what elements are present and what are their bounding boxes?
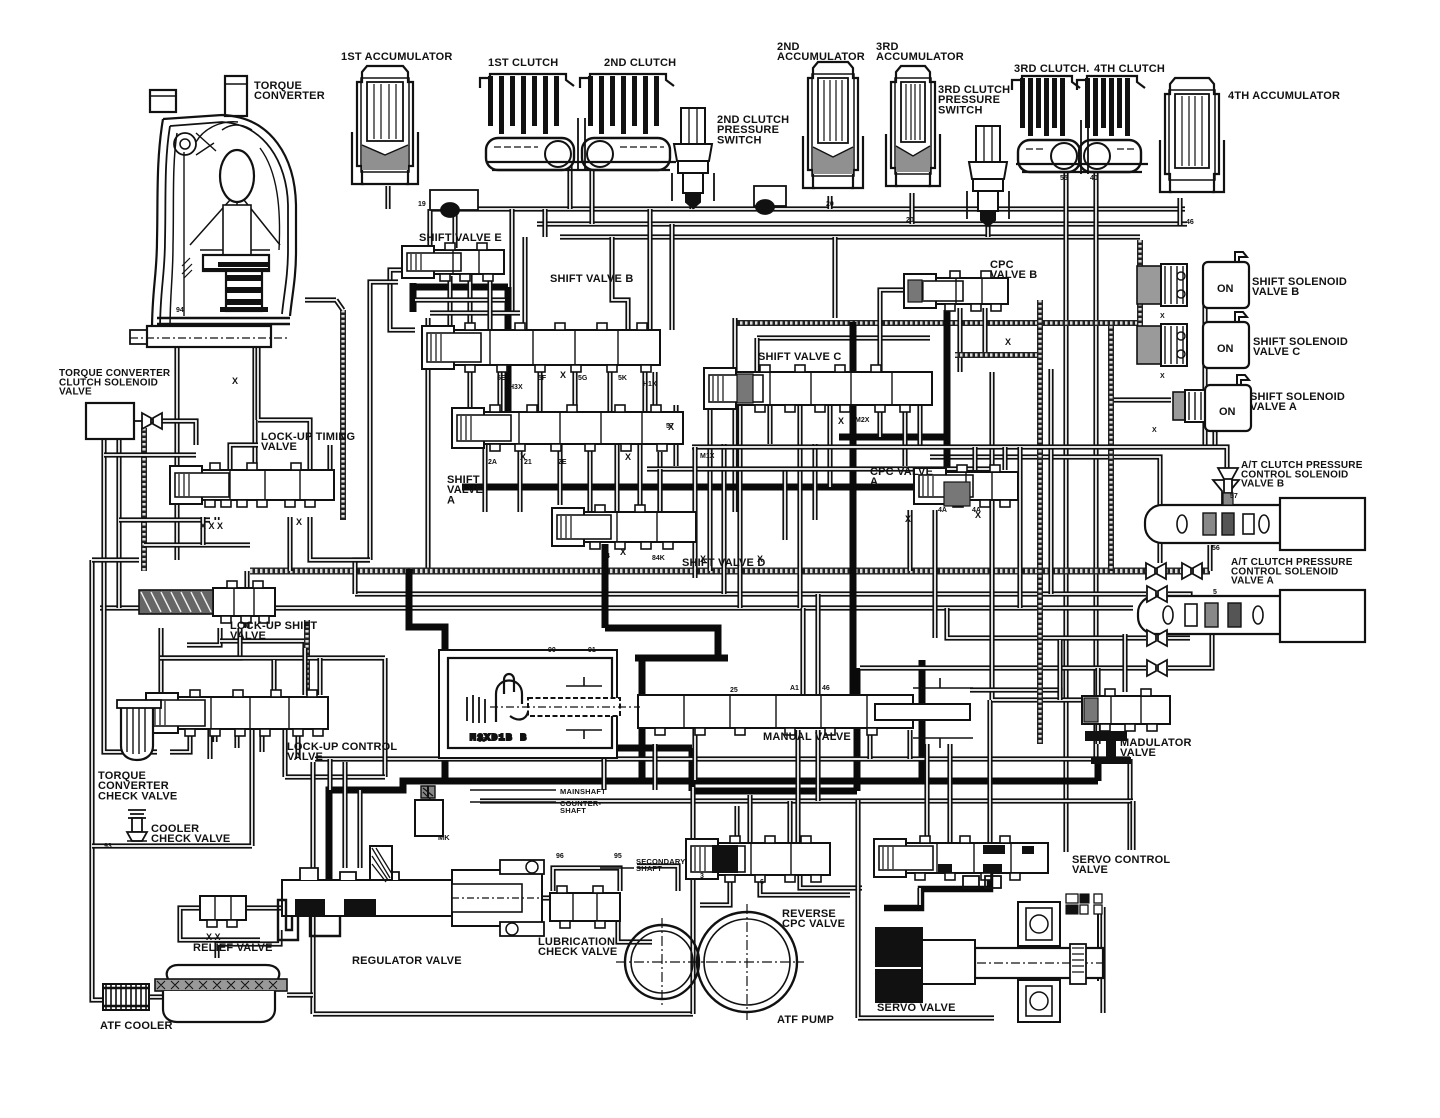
hatched TCC drop	[141, 428, 147, 571]
wire trunk y801	[480, 798, 1133, 803]
wire 3rd-clutch long line	[1063, 172, 1068, 852]
wire drop to servo control	[1127, 759, 1132, 850]
fitting funnel 3	[1147, 586, 1167, 602]
svg-text:MANUAL VALVE: MANUAL VALVE	[763, 731, 854, 743]
wire sc drop x950	[947, 744, 952, 843]
relief valve	[200, 896, 246, 927]
svg-text:96: 96	[556, 853, 564, 860]
wire 2nd-accumulator drop	[827, 196, 832, 209]
svg-text:X: X	[975, 510, 981, 520]
svg-text:X: X	[520, 452, 526, 462]
ATF cooler	[103, 984, 149, 1010]
wire B-A0	[467, 372, 472, 412]
svg-text:4: 4	[606, 553, 610, 560]
wire elbow to shift valve E	[427, 209, 432, 250]
hatched lus-luc link	[304, 620, 310, 695]
clutch 1/2 base plate	[486, 162, 676, 170]
torque converter	[130, 76, 296, 347]
wire big box right	[690, 787, 695, 1014]
hatched trunk y323	[735, 320, 1140, 326]
svg-text:X: X	[620, 547, 626, 557]
wire E left loop	[390, 270, 415, 330]
wire C dn3	[767, 405, 772, 444]
wire B-A3	[572, 365, 577, 412]
wire servo right v	[1100, 907, 1105, 1013]
clutch 2nd	[580, 74, 674, 170]
thick link under mainshaft	[605, 668, 857, 791]
wire rung1	[104, 452, 196, 457]
hatched long trunk y571	[250, 568, 1210, 575]
pressure switch 2nd clutch	[672, 108, 714, 208]
wire A-D3	[557, 444, 562, 505]
thick y628 right	[605, 628, 718, 658]
thick x605 low	[603, 658, 608, 748]
shift valve B	[422, 323, 660, 372]
svg-text:ON: ON	[1217, 343, 1234, 355]
svg-text:H1X: H1X	[643, 381, 657, 388]
wire trunk y469	[647, 466, 1000, 471]
wire B-A6	[652, 372, 657, 412]
wire drop x672	[669, 224, 674, 330]
svg-text:93: 93	[104, 843, 112, 850]
wire C dn5	[827, 405, 832, 487]
wire reg drop1	[357, 790, 362, 868]
wire clutch12 stem	[578, 118, 585, 170]
wire relief-reg	[246, 905, 282, 910]
wire mod top	[1057, 640, 1062, 700]
wire v x1051	[1048, 369, 1053, 594]
wire lus rung b	[160, 628, 240, 658]
wire drop x655	[652, 744, 657, 790]
wire rcpc up2	[747, 795, 752, 843]
svg-text:RELIEF VALVE: RELIEF VALVE	[193, 942, 276, 954]
wire inner drop	[754, 338, 759, 372]
wire A-D4b	[587, 444, 592, 512]
wire v x617	[614, 444, 619, 512]
svg-text:M1X: M1X	[700, 453, 715, 460]
cpc valve A hatched land	[944, 482, 970, 506]
wire 1st-accumulator drop	[385, 186, 390, 209]
mainshaft assembly box	[439, 650, 640, 758]
wire rcpc dn3	[700, 875, 730, 905]
svg-text:90: 90	[548, 647, 556, 654]
wire E-B2	[487, 276, 492, 330]
svg-text:4TH ACCUMULATOR: 4TH ACCUMULATOR	[1228, 90, 1343, 102]
wire port c	[287, 517, 292, 571]
wire cpcB down	[957, 308, 962, 372]
hatched v x1040	[1037, 300, 1043, 744]
manual valve	[638, 695, 913, 735]
wire TC drop right	[252, 347, 257, 470]
wire E-B1b	[447, 276, 452, 330]
wire cpcB to funnel column	[930, 457, 1160, 563]
shift valve C hatched land	[737, 374, 753, 403]
hatched y355	[955, 352, 1040, 358]
thick x642 down	[639, 658, 646, 781]
svg-text:5K: 5K	[618, 375, 627, 382]
wire trunk y759	[315, 756, 1130, 761]
hatched link x1140	[1137, 303, 1143, 351]
fitting funnel 2	[1182, 563, 1202, 579]
svg-text:84K: 84K	[652, 555, 665, 562]
wire v x935	[932, 510, 937, 638]
wire luc dn3	[295, 736, 300, 759]
hatched TC right drop	[340, 310, 346, 520]
wire reg drop3	[327, 759, 332, 790]
wire v x695	[692, 447, 697, 578]
wire clutch34 stem	[1081, 120, 1088, 174]
wire rcpc dn1	[760, 875, 850, 895]
wire C dn6	[877, 405, 882, 437]
wire luc top2	[302, 648, 307, 695]
svg-text:20: 20	[826, 201, 834, 208]
ATF pump	[616, 904, 804, 1020]
wire trunk y608 b	[1020, 605, 1133, 610]
wire 4th-accumulator drop	[1177, 198, 1182, 225]
wire mv drop3	[867, 730, 872, 759]
wire elbow x545	[542, 209, 547, 237]
wire C-cpcA1	[902, 405, 907, 466]
lubrication check valve	[550, 886, 620, 928]
wire funnel-unitA link	[1168, 594, 1190, 634]
svg-text:SHIFT VALVE C: SHIFT VALVE C	[758, 351, 845, 363]
wire C dn2	[737, 405, 742, 608]
wire rung3	[144, 542, 250, 547]
svg-text:LUBRICATION CHECK VALVE: LUBRICATION CHECK VALVE	[538, 936, 621, 958]
thick y658	[635, 655, 728, 662]
svg-text:X X: X X	[206, 932, 221, 942]
cpc valve A	[914, 465, 1018, 507]
svg-text:5: 5	[1213, 589, 1217, 596]
fitting funnel 4	[1147, 630, 1167, 646]
servo valve	[876, 894, 1108, 1022]
wire A-D5	[660, 452, 695, 520]
svg-text:X: X	[560, 370, 566, 380]
wire luc to trunk759	[207, 729, 212, 759]
svg-text:X: X	[700, 554, 706, 564]
wire B-A4	[607, 365, 612, 412]
wire into lockup shift	[92, 557, 139, 562]
svg-text:X: X	[1005, 337, 1011, 347]
wire drop x650	[647, 209, 652, 330]
wire timing top left	[230, 445, 258, 470]
wire lub top loop	[553, 868, 620, 891]
wire reg-lub link	[540, 895, 553, 900]
svg-text:4A: 4A	[938, 507, 947, 514]
wire y638 to funnel A	[947, 608, 1146, 638]
wire B-A2	[537, 365, 542, 412]
wire secondary leader	[600, 867, 634, 869]
wire drop x835	[832, 237, 837, 318]
pressure switch 3rd clutch	[967, 126, 1009, 226]
thick bottom trunk y781	[329, 762, 1098, 888]
wire 2nd-clutch drop	[589, 158, 594, 224]
svg-text:25: 25	[730, 687, 738, 694]
wire luc port2	[234, 729, 239, 748]
fitting funnel 5	[1147, 660, 1167, 676]
thick trunk y487	[462, 484, 947, 491]
wire 1st-clutch drop	[567, 158, 572, 209]
wire box1 right-bottom	[92, 727, 252, 846]
svg-text:40: 40	[1090, 175, 1098, 182]
wire left x104	[101, 420, 106, 680]
fitting check ball 1	[430, 190, 478, 217]
wire secondary link	[637, 866, 678, 891]
thick main low chain	[409, 569, 445, 781]
wire 4th-clutch long line	[1093, 172, 1098, 762]
thick riser x947	[944, 310, 951, 487]
A/T clutch pressure control solenoid valve B unit	[1145, 480, 1365, 550]
svg-text:X: X	[838, 416, 844, 426]
svg-text:1ST ACCUMULATOR: 1ST ACCUMULATOR	[341, 51, 456, 63]
wire solenoid A down	[1212, 431, 1217, 447]
wire servo border	[858, 800, 994, 1018]
svg-text:ATF PUMP: ATF PUMP	[777, 1014, 837, 1026]
wire TCC to timing	[150, 421, 196, 445]
wire trunk y447 to funnel B	[692, 447, 1227, 468]
svg-text:X: X	[1160, 313, 1165, 320]
wire C dn4	[797, 405, 802, 608]
wire v x975	[972, 447, 977, 470]
wire B-A1	[497, 365, 502, 412]
wire reservoir neck	[217, 930, 280, 958]
wire solenoid A feed	[1112, 397, 1171, 402]
wire v x910	[907, 510, 912, 571]
fitting TCC funnel	[142, 413, 162, 429]
reverse cpc valve	[686, 836, 830, 882]
svg-text:SHIFT VALVE B: SHIFT VALVE B	[550, 273, 637, 285]
accumulator 2nd	[803, 62, 863, 188]
fitting funnel above unit B	[1218, 468, 1238, 493]
svg-text:X: X	[1152, 427, 1157, 434]
svg-text:94: 94	[176, 307, 184, 314]
thick stub at E	[410, 283, 417, 312]
wire rcpc up3	[787, 801, 792, 843]
shift solenoid valve A	[1173, 375, 1251, 431]
wire reservoir right	[287, 992, 313, 997]
svg-text:55: 55	[478, 737, 486, 744]
wire modulator feed	[1095, 668, 1100, 744]
accumulator 1st	[352, 66, 418, 184]
regulator valve	[278, 846, 544, 940]
wire drop to servo control 2	[1130, 801, 1135, 850]
svg-text:X: X	[1160, 373, 1165, 380]
wire mainshaft leader	[470, 789, 556, 791]
svg-text:3: 3	[700, 873, 704, 880]
wire mv right link	[970, 690, 1060, 696]
servo control valve dark lands	[938, 845, 1034, 873]
svg-text:H3X: H3X	[509, 384, 523, 391]
servo control valve	[874, 836, 1048, 880]
wire v x428	[425, 318, 430, 569]
hatched x1140 upper	[1137, 240, 1143, 273]
wire drop x512	[509, 209, 514, 315]
svg-text:5F: 5F	[538, 375, 547, 382]
wire to shift valve E 2	[452, 209, 457, 248]
shift valve A	[452, 405, 683, 451]
svg-text:2A: 2A	[488, 459, 497, 466]
wire v x1020	[1017, 447, 1022, 608]
fitting check ball 2	[754, 186, 786, 214]
clutch 4th	[1077, 76, 1145, 172]
svg-text:95: 95	[614, 853, 622, 860]
svg-text:SERVO VALVE: SERVO VALVE	[877, 1002, 959, 1014]
wire drop x612	[612, 237, 628, 330]
shift valve C	[704, 365, 932, 412]
wire lus from trunk	[244, 571, 249, 628]
wire lus to luc	[220, 641, 305, 695]
svg-text:2ND CLUTCH: 2ND CLUTCH	[604, 57, 680, 69]
wire left x119	[116, 440, 121, 608]
reverse cpc dark end	[712, 845, 738, 873]
wire cooler-reservoir	[148, 994, 163, 999]
wire trunk y594	[355, 591, 1146, 596]
hatched v x1111	[1108, 326, 1114, 571]
wire C dn0	[673, 405, 678, 466]
wire E-B1	[467, 270, 472, 330]
wire y668 to unit A	[1168, 634, 1212, 668]
svg-text:X: X	[625, 452, 631, 462]
svg-text:X X X: X X X	[200, 521, 223, 531]
wire relief loop	[180, 908, 260, 940]
svg-text:A1: A1	[790, 685, 799, 692]
wire inner y338	[757, 335, 930, 340]
wire v x1005	[1002, 447, 1007, 470]
wire port b	[214, 517, 219, 520]
lock-up control valve	[146, 690, 328, 736]
svg-text:ON: ON	[1219, 406, 1236, 418]
wire left mid link	[355, 560, 370, 594]
svg-text:91: 91	[588, 647, 596, 654]
svg-text:4TH CLUTCH: 4TH CLUTCH	[1094, 63, 1168, 75]
wire drop x695	[692, 717, 697, 780]
fitting funnel 1	[1146, 563, 1166, 579]
wire servo right line	[1097, 912, 1099, 981]
clutch 3/4 base plate	[1016, 164, 1148, 172]
svg-text:SHIFT VALVE E: SHIFT VALVE E	[419, 232, 505, 244]
svg-text:19: 19	[418, 201, 426, 208]
wire y668	[860, 665, 1146, 670]
svg-text:3RD CLUTCH.: 3RD CLUTCH.	[1014, 63, 1093, 75]
thick into regulator	[300, 888, 329, 902]
MK pilot valve	[421, 786, 435, 798]
wire cpcB left	[880, 290, 905, 372]
svg-text:2E: 2E	[558, 459, 567, 466]
svg-text:57: 57	[1230, 493, 1238, 500]
svg-text:X: X	[668, 422, 674, 432]
wire unitB drop	[1207, 545, 1212, 571]
wire luc port3	[259, 729, 264, 752]
servo control port boxes	[963, 876, 1001, 888]
thick E to A	[413, 287, 508, 425]
lock-up timing valve	[170, 463, 334, 507]
wire big box left-bottom	[313, 762, 693, 1014]
wire right x1205	[1202, 280, 1207, 447]
clutch 3rd	[1012, 76, 1080, 172]
wire sc drop x927	[924, 744, 929, 843]
torque converter clutch solenoid valve	[86, 403, 144, 439]
modulator hatched end	[1084, 698, 1098, 722]
shift valve E	[402, 243, 504, 281]
wire 3rd-accumulator drop	[909, 193, 914, 224]
wire rung2	[119, 517, 210, 522]
wire into TC check valve	[104, 680, 157, 752]
wire mv-rcpc1	[795, 730, 800, 843]
svg-text:55: 55	[1060, 175, 1068, 182]
modulator valve dark base	[1085, 731, 1131, 764]
wire C-cpcA2	[917, 405, 922, 447]
wire v x660b	[657, 469, 662, 530]
svg-text:X: X	[757, 554, 763, 564]
wire box luc bottom	[285, 723, 385, 777]
svg-text:SHIFT VALVE D: SHIFT VALVE D	[682, 557, 769, 569]
wire E to left down	[370, 282, 398, 560]
wire cpcB down 2	[982, 308, 987, 355]
clutch 1st	[480, 74, 574, 170]
wire A-D2	[517, 444, 522, 512]
shift solenoid valve C	[1137, 312, 1249, 368]
svg-text:MK: MK	[438, 833, 450, 842]
wire mv drop4	[907, 730, 912, 759]
wire sc drop x990	[987, 700, 992, 843]
wire rung under E a	[415, 297, 505, 302]
wire timing top right	[327, 445, 332, 470]
thick riser x922	[919, 660, 926, 781]
wire left border	[92, 560, 103, 1000]
wire luc top3	[317, 658, 322, 695]
svg-text:1ST CLUTCH: 1ST CLUTCH	[488, 57, 562, 69]
wire into modulator	[992, 372, 1082, 700]
svg-text:46: 46	[1186, 219, 1194, 226]
wire luc port1	[212, 729, 217, 742]
wire lub to pump	[618, 921, 652, 942]
svg-text:5G: 5G	[578, 375, 588, 382]
svg-text:MAINSHAFT: MAINSHAFT	[560, 787, 608, 796]
wire luc dn2	[170, 736, 190, 752]
svg-text:ATF COOLER: ATF COOLER	[100, 1020, 176, 1032]
wire TC elbow	[305, 300, 343, 310]
wire lus down-left	[161, 628, 172, 700]
thick valveD drop	[602, 544, 609, 628]
wire trunk y608	[100, 605, 1020, 610]
wire rung under E b	[430, 310, 520, 315]
wire rcpc up1	[734, 806, 739, 843]
wire box left x735	[732, 318, 737, 512]
wire rcpc dn2	[800, 875, 862, 888]
wire unitA dn x1125	[1122, 634, 1127, 692]
cooler check valve	[127, 810, 147, 841]
wire 2nd-switch drop	[689, 200, 694, 209]
A/T clutch pressure control solenoid valve A unit	[1138, 590, 1365, 642]
wire v x785	[782, 469, 787, 540]
wire reg drop2	[342, 762, 347, 868]
thick riser x853	[850, 322, 857, 700]
ATF strainer	[155, 965, 287, 1022]
svg-text:5E: 5E	[497, 375, 506, 382]
svg-text:REGULATOR VALVE: REGULATOR VALVE	[352, 955, 465, 967]
cpc valve B hatched land	[908, 280, 922, 302]
svg-text:20: 20	[906, 217, 914, 224]
wire A-D1	[482, 444, 487, 512]
wire C dn1	[707, 405, 712, 571]
thick y437	[839, 434, 947, 441]
torque converter check valve	[117, 700, 161, 760]
lock-up shift valve	[213, 581, 275, 623]
wire 3rd-switch drop	[985, 224, 990, 237]
wire v x815	[812, 444, 817, 520]
wire port d	[310, 517, 370, 560]
wire TC base to timing	[258, 347, 310, 470]
